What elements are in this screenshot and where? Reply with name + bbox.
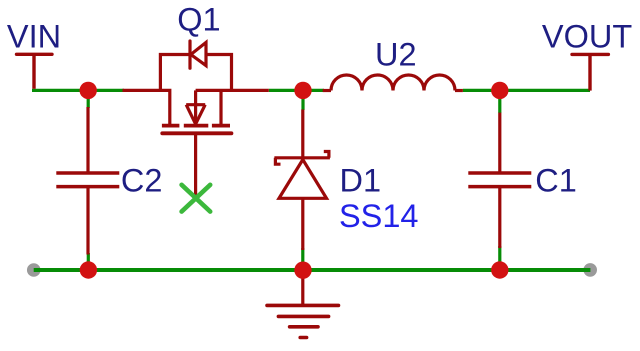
Q1 gate lead [194,133,197,195]
wire U2 right pin to node C [463,89,500,92]
Q1 body arrow slants [186,105,195,124]
C1 plate 1 [468,171,531,175]
Q1 body-diode left leg [160,55,189,91]
wire node C to VOUT pin [500,89,590,92]
node B junction [294,82,311,99]
port VIN pin [17,54,53,89]
svg-text:U2: U2 [375,37,417,73]
capacitor C2 [56,107,119,255]
svg-text:VIN: VIN [7,19,61,55]
Q1 body vertical [194,90,197,126]
capacitor C1 [468,113,531,248]
Q1 gate line [162,131,231,135]
node D junction [80,261,97,278]
node F junction [491,261,508,278]
svg-text:Q1: Q1 [177,1,220,37]
port VOUT pin [572,54,608,90]
C2 plate 2 [56,185,119,189]
C2 bottom lead [86,187,89,255]
Q1 drain leg [219,90,222,124]
svg-text:D1: D1 [340,163,382,199]
Q1 body contact bar [184,124,209,128]
svg-text:C2: C2 [121,163,163,199]
transistor Q1 [123,41,269,196]
wire node C to C1 top [498,92,501,113]
D1 triangle [279,160,327,199]
wire node B to D1 top [301,92,304,110]
Q1 body arrow top bar [186,103,205,106]
Q1 drain rail and pin [196,89,269,92]
inductor U2 [323,75,463,91]
wire node A to C2 top [87,92,90,108]
no-connect X on Q1 gate [182,185,211,212]
U2 right pin [455,89,463,92]
C2 top lead [86,107,89,173]
U2 humps [331,75,455,91]
U2 left pin [323,89,331,92]
ground bar 4 [300,336,306,340]
D1 schottky left hook [275,158,280,164]
D1 bottom lead [301,198,304,250]
Q1 drain contact bar [212,124,230,128]
C1 bottom lead [498,187,501,248]
D1 schottky cathode bar [274,156,330,159]
ground lead [301,270,304,306]
rail left endpoint [27,263,41,277]
C2 plate 1 [56,171,119,175]
diode D1 [274,110,330,251]
svg-text:SS14: SS14 [339,198,419,234]
svg-text:C1: C1 [535,163,577,199]
wire Q1 drain to node B [269,89,303,92]
wire top-left VIN to node A [32,89,88,92]
node C junction [491,82,508,99]
C1 top lead [498,113,501,173]
svg-text:VOUT: VOUT [542,19,632,55]
Q1 body-diode cathode bar [188,41,191,68]
rail right endpoint [583,263,597,277]
wire bottom ground rail [34,268,591,272]
wire node A to Q1 source pin [88,89,124,92]
Q1 body-diode triangle [191,42,206,65]
wire C2 bottom to node D [87,253,90,269]
Q1 pin 1 source lead [123,90,170,124]
C1 plate 2 [468,185,531,189]
ground bar 2 [278,315,328,319]
Q1 source contact bar [162,124,180,128]
node A junction [80,82,97,99]
ground [267,270,339,338]
D1 schottky right hook [324,152,329,158]
wire D1 bottom to node E [301,248,304,269]
Q1 body-diode right leg [206,55,232,91]
node E junction [294,262,311,279]
wire C1 bottom to node F [498,246,501,269]
ground bar 3 [290,325,318,329]
wire node B to U2 left pin [303,89,324,92]
ground bar 1 [267,304,339,308]
D1 top lead [301,110,304,158]
